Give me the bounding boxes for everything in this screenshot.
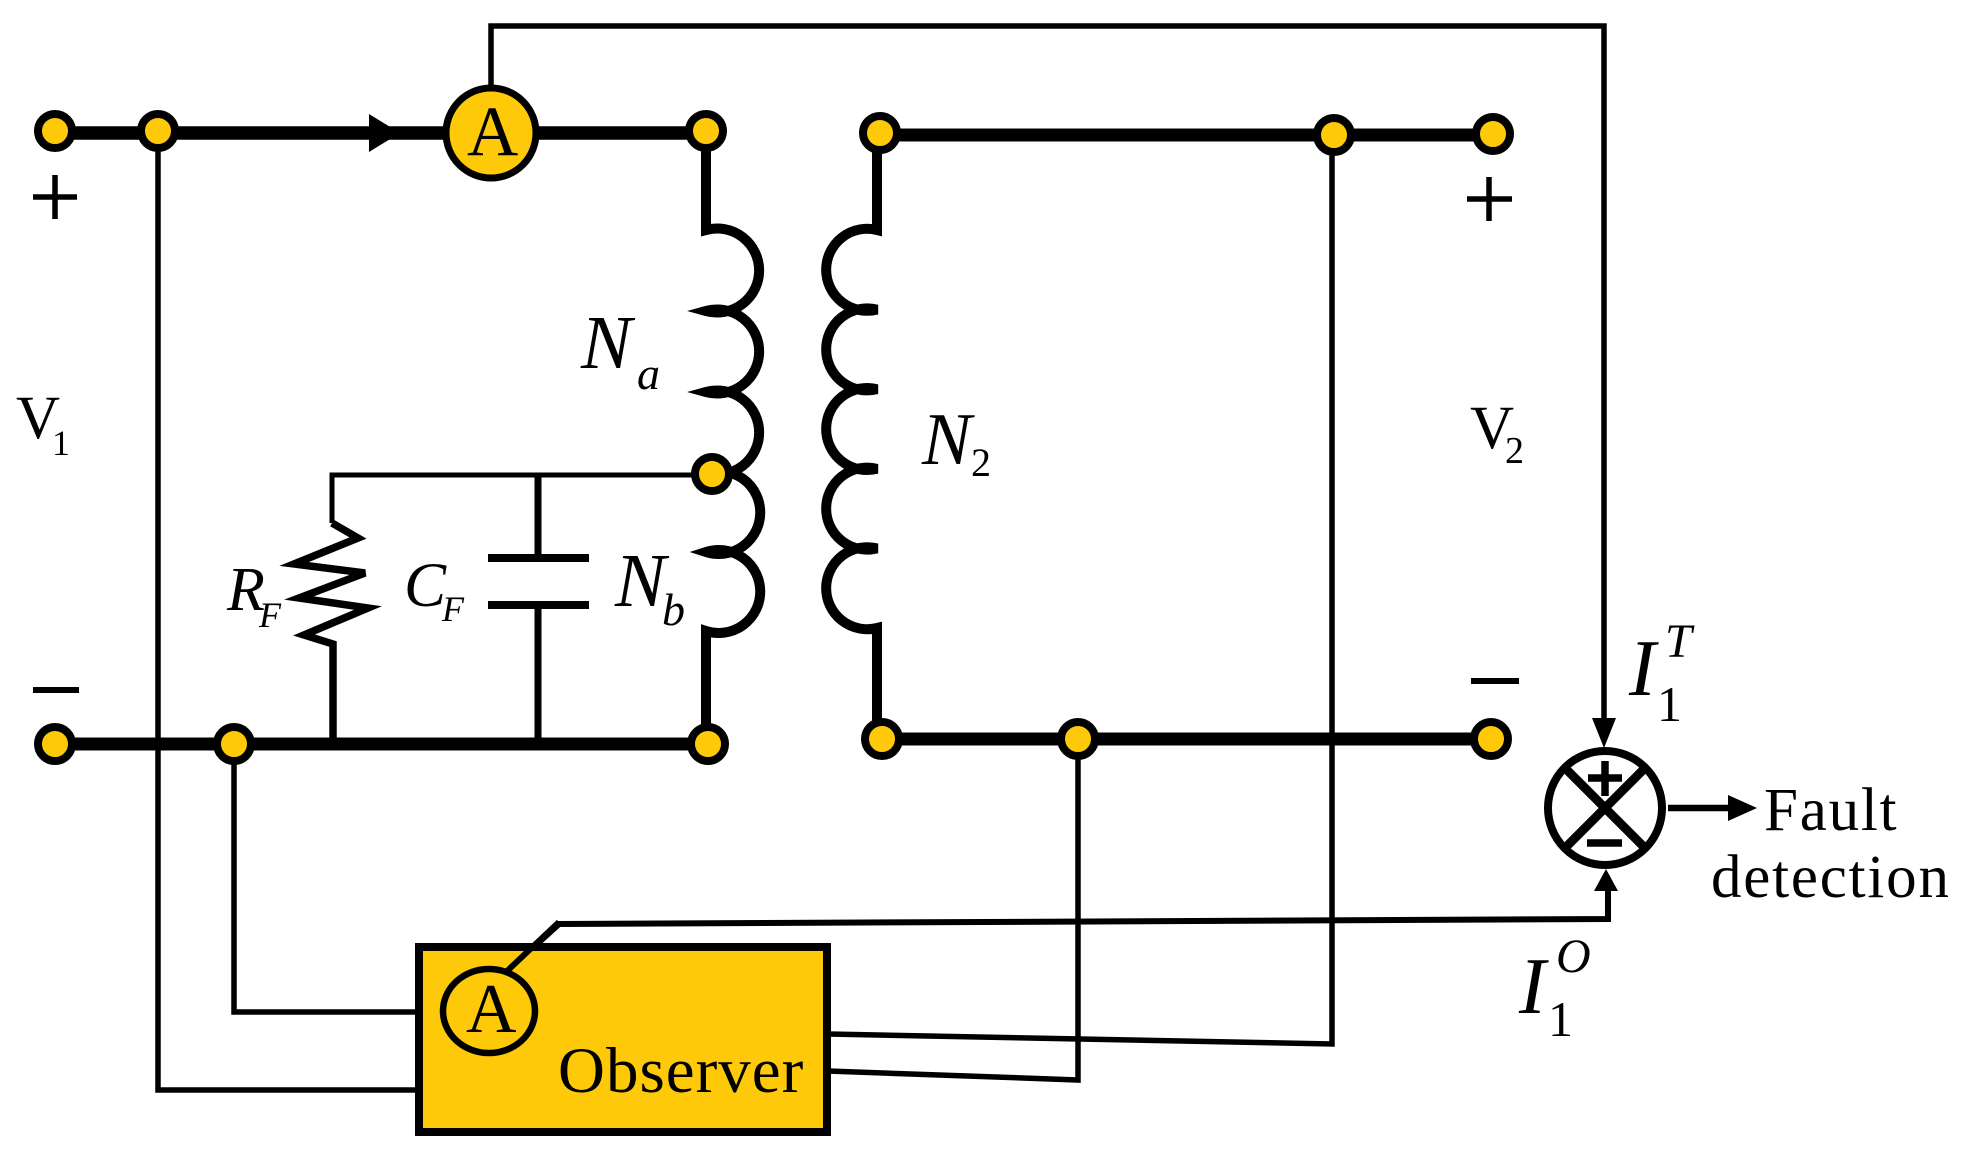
wire: primary bottom bus	[55, 738, 708, 751]
node: secondary bottom junction	[1061, 722, 1095, 756]
svg-text:F: F	[258, 595, 282, 635]
wire: observer output to top bus x=1334 vertical	[828, 136, 1332, 1044]
svg-text:A: A	[467, 93, 518, 171]
inductor N2	[826, 135, 877, 739]
node: primary top junction	[141, 114, 175, 148]
svg-text:O: O	[1556, 930, 1591, 983]
wire: observer output to bottom bus x=1078 vertical	[828, 739, 1078, 1080]
svg-text:A: A	[466, 971, 517, 1048]
svg-text:N: N	[580, 301, 636, 385]
svg-text:I: I	[1628, 625, 1659, 713]
label: V1 minus	[33, 687, 79, 693]
wire: tap to RF/CF top rail	[332, 475, 712, 523]
svg-text:2: 2	[971, 440, 991, 485]
ammeter A1 (primary ammeter)	[446, 88, 536, 178]
node: V2 + terminal	[1476, 117, 1510, 151]
node: Na top	[689, 114, 723, 148]
svg-text:F: F	[441, 589, 465, 629]
node: secondary top junction	[1317, 118, 1351, 152]
summing junction	[1548, 751, 1662, 865]
wire: secondary bottom bus	[880, 733, 1491, 746]
svg-text:1: 1	[1657, 676, 1682, 732]
node: V2 - terminal	[1474, 722, 1508, 756]
arrowhead: primary current direction	[369, 114, 400, 152]
svg-text:Observer: Observer	[558, 1035, 804, 1107]
node: N2 top	[863, 116, 897, 150]
wire: summing node output arrow	[1668, 805, 1732, 812]
svg-text:Fault: Fault	[1764, 777, 1898, 844]
label: V2 minus	[1471, 678, 1519, 684]
plus sign in summing node	[1588, 774, 1622, 782]
svg-text:I: I	[1518, 943, 1549, 1031]
wire: V1+ terminal down to observer (left vertical)	[158, 131, 423, 1090]
arrowhead into summing node bottom	[1594, 869, 1618, 891]
svg-text:C: C	[404, 550, 447, 620]
wire: secondary top bus	[880, 129, 1493, 142]
resistor RF	[294, 523, 368, 744]
observer block	[419, 947, 827, 1132]
svg-text:1: 1	[52, 423, 70, 463]
wire: primary bottom bus to observer	[234, 744, 423, 1012]
wire: observer I1O to summing node bottom	[505, 884, 1608, 973]
wire: ammeter top to summing node (feedback I1T)	[491, 26, 1604, 730]
svg-text:2: 2	[1505, 430, 1524, 472]
svg-text:1: 1	[1548, 991, 1573, 1047]
svg-text:b: b	[662, 584, 685, 635]
minus sign in summing node	[1587, 839, 1622, 847]
node: winding tap	[695, 457, 729, 491]
arrowhead into summing node top	[1592, 718, 1616, 748]
node: primary bottom junction	[217, 727, 251, 761]
wire: observer diagonal stub	[505, 922, 559, 973]
svg-text:detection: detection	[1711, 844, 1951, 911]
inductor Na	[706, 133, 759, 475]
label: V1 plus	[33, 194, 77, 200]
capacitor CF	[535, 473, 542, 554]
svg-text:T: T	[1665, 615, 1695, 668]
node: V1 - terminal	[38, 727, 72, 761]
svg-text:a: a	[637, 348, 660, 399]
wire: primary top bus	[55, 126, 706, 140]
ammeter symbol inside observer	[443, 969, 535, 1053]
node: N2 bottom	[865, 722, 899, 756]
label: V2 plus	[1467, 196, 1512, 202]
svg-text:N: N	[921, 399, 975, 481]
inductor Nb	[706, 471, 760, 744]
node: V1 + terminal	[38, 114, 72, 148]
node: Nb bottom	[691, 727, 725, 761]
